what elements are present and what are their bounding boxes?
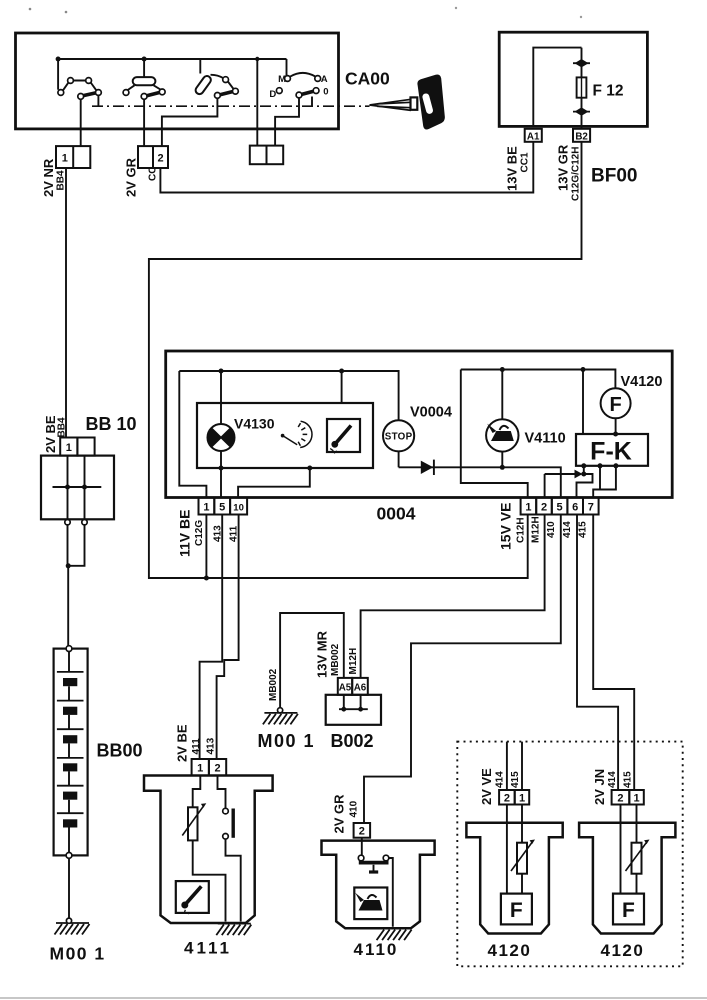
svg-text:0004: 0004 [377, 504, 416, 524]
svg-text:2: 2 [504, 793, 510, 805]
svg-text:C12G/C12H: C12G/C12H [571, 147, 582, 201]
svg-text:2V JN: 2V JN [592, 769, 607, 805]
svg-text:BB4: BB4 [56, 170, 67, 190]
svg-text:C12G: C12G [194, 520, 205, 546]
svg-text:414: 414 [495, 771, 506, 788]
svg-text:A6: A6 [354, 683, 367, 694]
svg-text:414: 414 [607, 771, 618, 788]
svg-text:0: 0 [323, 87, 328, 98]
svg-text:A: A [321, 74, 328, 85]
svg-text:2V GR: 2V GR [332, 794, 347, 834]
svg-text:F-K: F-K [590, 438, 632, 466]
svg-text:F: F [622, 899, 635, 922]
svg-text:V4110: V4110 [525, 431, 566, 447]
svg-text:B2: B2 [575, 131, 588, 142]
svg-text:410: 410 [349, 800, 360, 817]
svg-text:CC1: CC1 [520, 152, 531, 172]
svg-text:414: 414 [562, 521, 573, 538]
svg-text:BB4: BB4 [57, 417, 68, 437]
svg-text:413: 413 [206, 737, 217, 754]
svg-text:M12H: M12H [348, 648, 359, 675]
svg-text:13V GR: 13V GR [556, 144, 571, 191]
svg-text:13V BE: 13V BE [505, 146, 520, 191]
svg-text:13V MR: 13V MR [315, 630, 330, 678]
svg-text:V0004: V0004 [410, 405, 452, 421]
svg-text:2: 2 [214, 763, 220, 775]
svg-text:F 12: F 12 [593, 83, 624, 100]
svg-text:1: 1 [519, 793, 525, 805]
svg-text:M00 1: M00 1 [50, 944, 106, 964]
svg-text:15V VE: 15V VE [498, 503, 514, 550]
svg-text:5: 5 [557, 502, 563, 514]
svg-text:2: 2 [359, 826, 365, 838]
svg-text:1: 1 [633, 793, 639, 805]
svg-text:2: 2 [617, 793, 623, 805]
svg-text:V4130: V4130 [234, 416, 275, 432]
svg-text:D: D [269, 89, 276, 100]
svg-text:1: 1 [197, 763, 203, 775]
svg-text:BB 10: BB 10 [86, 414, 137, 434]
svg-text:MB002: MB002 [268, 668, 279, 701]
svg-text:MB002: MB002 [330, 643, 341, 676]
svg-text:BB00: BB00 [97, 741, 143, 761]
svg-text:2: 2 [158, 153, 164, 165]
svg-text:F: F [510, 899, 523, 922]
svg-text:1: 1 [525, 502, 531, 514]
svg-text:STOP: STOP [385, 432, 413, 443]
svg-text:1: 1 [66, 442, 72, 454]
svg-text:2V GR: 2V GR [124, 157, 139, 197]
svg-text:4120: 4120 [488, 941, 532, 960]
svg-text:A5: A5 [339, 683, 352, 694]
svg-text:7: 7 [588, 502, 594, 514]
svg-text:415: 415 [623, 771, 634, 788]
svg-text:1: 1 [62, 153, 68, 165]
svg-text:415: 415 [578, 521, 589, 538]
svg-text:2V VE: 2V VE [479, 768, 494, 805]
svg-text:411: 411 [191, 738, 202, 755]
svg-text:A1: A1 [527, 131, 540, 142]
svg-text:415: 415 [510, 771, 521, 788]
svg-text:4110: 4110 [354, 940, 399, 959]
svg-text:M12H: M12H [531, 516, 542, 543]
svg-text:5: 5 [219, 502, 225, 514]
svg-text:B002: B002 [331, 731, 374, 751]
svg-text:CC: CC [148, 167, 159, 181]
svg-text:413: 413 [213, 525, 224, 542]
svg-text:2V BE: 2V BE [175, 724, 190, 762]
svg-text:4120: 4120 [601, 941, 645, 960]
svg-text:4111: 4111 [184, 939, 232, 958]
svg-text:CA00: CA00 [345, 69, 390, 89]
svg-text:10: 10 [233, 503, 244, 514]
svg-text:M: M [278, 74, 286, 85]
svg-text:411: 411 [229, 525, 240, 542]
svg-text:V4120: V4120 [621, 374, 663, 390]
svg-text:BF00: BF00 [591, 166, 637, 187]
svg-text:1: 1 [203, 502, 209, 514]
svg-text:C12H: C12H [516, 517, 527, 543]
svg-text:M00 1: M00 1 [258, 731, 316, 751]
svg-text:2V NR: 2V NR [41, 158, 56, 197]
svg-text:11V BE: 11V BE [177, 510, 193, 557]
svg-text:410: 410 [546, 521, 557, 538]
svg-text:F: F [609, 394, 621, 416]
svg-text:2: 2 [541, 502, 547, 514]
svg-text:6: 6 [572, 502, 578, 514]
